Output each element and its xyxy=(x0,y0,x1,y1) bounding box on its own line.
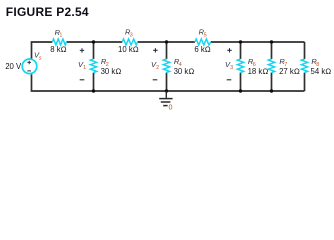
svg-text:20 V: 20 V xyxy=(5,62,22,71)
svg-text:FIGURE P2.54: FIGURE P2.54 xyxy=(6,5,89,19)
svg-text:s: s xyxy=(39,55,42,61)
wire top rail xyxy=(31,41,305,43)
node dot top V2 xyxy=(165,40,168,43)
node V1 - xyxy=(80,79,85,81)
node dot bottom V3 xyxy=(239,89,242,92)
resistor R1 zigzag xyxy=(52,39,66,45)
resistor R3 zigzag xyxy=(122,39,137,45)
voltage source Vs circle xyxy=(22,59,37,74)
svg-text:5: 5 xyxy=(204,33,207,39)
wire branch R7 xyxy=(271,42,273,91)
wire left edge (source branch) xyxy=(31,42,33,91)
node dot bottom R7 xyxy=(270,89,273,92)
wire right edge R8 branch xyxy=(304,42,306,91)
resistor R5 zigzag xyxy=(195,39,211,45)
svg-text:3: 3 xyxy=(230,65,233,71)
resistor R2 zigzag xyxy=(90,59,96,73)
ground symbol xyxy=(165,91,167,98)
resistor R8 zigzag xyxy=(301,59,307,73)
wire branch V3/R6 xyxy=(240,42,242,91)
wire branch V2/R4 xyxy=(166,42,168,91)
node V2 - xyxy=(153,79,158,81)
node dot top R7 xyxy=(270,40,273,43)
wire branch V1/R2 xyxy=(93,42,95,91)
resistor R7 zigzag xyxy=(268,59,274,73)
node dot top V3 xyxy=(239,40,242,43)
node V3 - xyxy=(227,79,232,81)
svg-text:54 kΩ: 54 kΩ xyxy=(311,67,332,76)
node V3 + xyxy=(227,48,231,52)
node V2 + xyxy=(153,48,157,52)
resistor R4 zigzag xyxy=(163,59,169,73)
resistor R6 zigzag xyxy=(237,59,243,73)
node dot bottom V1 xyxy=(92,89,95,92)
svg-text:30 kΩ: 30 kΩ xyxy=(101,67,122,76)
node dot bottom V2/ground xyxy=(165,89,168,92)
svg-text:18 kΩ: 18 kΩ xyxy=(248,67,269,76)
svg-text:1: 1 xyxy=(59,33,62,39)
node dot top V1 xyxy=(92,40,95,43)
svg-text:2: 2 xyxy=(156,65,159,71)
svg-text:10 kΩ: 10 kΩ xyxy=(118,45,139,54)
svg-text:6 kΩ: 6 kΩ xyxy=(194,45,210,54)
svg-text:27 kΩ: 27 kΩ xyxy=(279,67,300,76)
svg-text:1: 1 xyxy=(83,65,86,71)
wire bottom rail xyxy=(31,90,305,92)
svg-text:3: 3 xyxy=(130,32,133,38)
svg-text:30 kΩ: 30 kΩ xyxy=(174,67,195,76)
node V1 + xyxy=(80,48,84,52)
voltage source + polarity xyxy=(27,61,31,65)
svg-text:0: 0 xyxy=(169,103,173,112)
svg-text:8 kΩ: 8 kΩ xyxy=(50,45,66,54)
voltage source - polarity xyxy=(27,70,31,72)
